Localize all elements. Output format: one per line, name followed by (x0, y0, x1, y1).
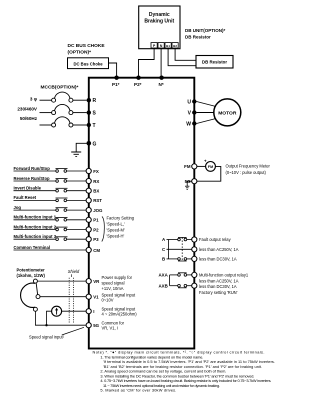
digital input BX: Invert Disable (14, 186, 86, 193)
terminal VR (86, 279, 100, 284)
svg-text:FM: FM (184, 164, 191, 169)
terminal I (86, 309, 94, 314)
svg-text:B1: B1 (166, 44, 170, 48)
DC bus choke box (68, 58, 109, 69)
svg-text:less than AC250V, 1A: less than AC250V, 1A (199, 247, 239, 252)
svg-text:(0~10V : pulse output): (0~10V : pulse output) (226, 170, 267, 175)
digital input P2: Multi-function input 2 (14, 224, 86, 231)
svg-text:Invert Disable: Invert Disable (14, 186, 42, 191)
terminal FX (86, 168, 99, 173)
svg-text:RST: RST (93, 198, 102, 203)
ground symbol (71, 152, 81, 156)
terminal T (87, 123, 96, 129)
svg-text:Jog: Jog (14, 205, 22, 210)
svg-text:G: G (93, 141, 97, 147)
svg-text:FM: FM (208, 165, 213, 169)
svg-text:less than DC30V, 1A: less than DC30V, 1A (199, 257, 237, 262)
svg-text:Power supply for: Power supply for (102, 275, 133, 280)
terminal B1 of braking unit (165, 43, 171, 48)
wire choke to P1 (109, 63, 117, 78)
svg-text:3 φ: 3 φ (30, 97, 38, 102)
digital input P3: Multi-function input 3 (14, 234, 86, 241)
wire N to N node (160, 48, 162, 78)
digital input RX: Reverse Run/Stop (14, 176, 86, 183)
aux relay left bus wire (169, 275, 171, 286)
svg-text:P2*: P2* (134, 82, 142, 87)
digital input JOG: Jog (14, 205, 86, 212)
terminal S (87, 110, 97, 116)
MCCB breaker pole T (40, 117, 87, 127)
svg-text:'Speed-L,': 'Speed-L,' (107, 222, 125, 227)
svg-text:P1*: P1* (112, 82, 120, 87)
wire current source to I (62, 310, 86, 312)
wire B1 to DB resistor (168, 48, 196, 66)
svg-text:V1: V1 (93, 295, 99, 300)
svg-text:P2: P2 (93, 227, 99, 232)
svg-text:DB UNIT(OPTION)*: DB UNIT(OPTION)* (185, 28, 225, 33)
factory setting bracket for P1-P3 (102, 217, 105, 242)
terminal P3 (86, 237, 99, 242)
svg-text:5. Marked as 'CM' for over 30k: 5. Marked as 'CM' for over 30kW drives. (100, 388, 176, 393)
terminal N of braking unit (158, 43, 164, 48)
relay mechanical link (dashed) (181, 237, 183, 261)
wire G to ground (76, 143, 86, 152)
node N (159, 76, 164, 88)
svg-text:AXB: AXB (159, 283, 168, 288)
potentiometer wiper arm (36, 283, 37, 294)
wire U to motor (197, 102, 217, 107)
label DC BUS CHOKE (OPTION) (68, 43, 106, 56)
terminal 30C (192, 247, 197, 252)
potentiometer body arc (21, 283, 36, 307)
svg-text:(1kohm, 1/2W): (1kohm, 1/2W) (17, 273, 46, 278)
potentiometer top contact (33, 279, 37, 283)
terminal 5G (analog common) (86, 323, 100, 328)
svg-text:VR, V1, I: VR, V1, I (102, 326, 118, 331)
terminal RST (86, 198, 102, 203)
svg-text:Braking Unit: Braking Unit (144, 18, 174, 24)
notes block (93, 350, 276, 393)
junction current source to common (45, 324, 47, 326)
svg-text:DC Bus Choke: DC Bus Choke (73, 61, 103, 66)
svg-text:AXA: AXA (159, 273, 169, 278)
svg-text:Fault Reset: Fault Reset (14, 195, 37, 200)
terminal P1 (86, 217, 99, 222)
label fault output relay (199, 237, 239, 261)
wire pot wiper to V1 (40, 296, 86, 298)
svg-text:0~10V: 0~10V (102, 298, 114, 303)
label output frequency meter (226, 164, 271, 175)
svg-text:Output Frequency Meter: Output Frequency Meter (226, 164, 271, 169)
wire B2 to DB resistor (175, 48, 196, 60)
node P2 (134, 76, 142, 88)
terminal RX (86, 178, 99, 183)
shield dotted line left (68, 278, 70, 323)
svg-text:RX: RX (93, 179, 99, 184)
terminal V (188, 110, 197, 116)
terminal AXA (192, 272, 197, 277)
svg-text:Common Terminal: Common Terminal (14, 245, 50, 250)
svg-text:Forward Run/Stop: Forward Run/Stop (14, 166, 51, 171)
wire 5G to shield ground (187, 181, 191, 186)
terminal JOG (86, 208, 103, 213)
terminal G (87, 141, 97, 147)
terminal P of braking unit (151, 43, 157, 48)
svg-text:Dynamic: Dynamic (149, 12, 170, 18)
svg-text:DB Resistor: DB Resistor (202, 60, 227, 65)
terminal P2 (86, 227, 99, 232)
factory setting note (107, 216, 135, 239)
svg-text:A: A (162, 237, 166, 242)
svg-text:S: S (93, 111, 97, 117)
svg-text:+: + (204, 158, 207, 163)
terminal V1 (86, 294, 99, 299)
svg-text:JOG: JOG (93, 208, 103, 213)
svg-text:less than DC30V, 1A: less than DC30V, 1A (199, 284, 237, 289)
svg-text:I: I (93, 309, 94, 314)
svg-text:5G: 5G (93, 323, 99, 328)
label multi-function output relay (199, 272, 249, 295)
potentiometer bottom contact (33, 307, 37, 311)
frequency meter FM (204, 158, 215, 171)
aux relay contact AXB row (159, 283, 192, 288)
terminal AXB (192, 283, 197, 288)
svg-text:Shield: Shield (68, 269, 80, 274)
svg-text:W: W (186, 122, 191, 128)
svg-text:4 ~ 20mA(250ohm): 4 ~ 20mA(250ohm) (102, 312, 138, 317)
svg-text:Multi-function input 1: Multi-function input 1 (14, 215, 57, 220)
terminal R (87, 98, 97, 104)
digital input FX: Forward Run/Stop (14, 166, 86, 173)
label VR power supply (102, 275, 133, 291)
label I speed signal input (102, 307, 138, 317)
svg-text:230/460V: 230/460V (17, 106, 38, 111)
current source (4-20mA) (52, 306, 62, 316)
svg-text:B2: B2 (173, 44, 177, 48)
wire pot bottom to 5G (35, 311, 86, 325)
fault relay C row wire (162, 247, 192, 252)
svg-text:+11V, 10mA: +11V, 10mA (102, 286, 124, 291)
MCCB breaker pole R (40, 92, 87, 102)
digital input CM: Common Terminal (14, 245, 86, 250)
label V1 speed signal input (102, 292, 137, 302)
svg-text:Reverse Run/Stop: Reverse Run/Stop (14, 176, 51, 181)
svg-text:'Speed-H': 'Speed-H' (107, 234, 125, 239)
svg-text:50/60Hz: 50/60Hz (20, 116, 38, 121)
label potentiometer (17, 267, 46, 277)
wire meter to 5G (197, 166, 221, 181)
svg-text:CM: CM (93, 248, 100, 253)
terminal B2 of braking unit (172, 43, 178, 48)
svg-text:P3: P3 (93, 237, 99, 242)
svg-text:BX: BX (93, 189, 99, 194)
label DB UNIT(OPTION) (185, 28, 225, 39)
potentiometer wiper contact (36, 295, 40, 299)
digital input RST: Fault Reset (14, 195, 86, 202)
svg-text:Potentiometer: Potentiometer (17, 267, 46, 272)
terminal FM (184, 164, 197, 169)
wire P to P2 (139, 48, 155, 78)
wire current source to common (47, 311, 52, 325)
svg-text:MCCB(OPTION)*: MCCB(OPTION)* (41, 85, 79, 91)
aux relay contact AXA row (159, 273, 192, 278)
terminal CM (86, 247, 100, 252)
wire pot top to VR (37, 280, 86, 282)
svg-text:'Speed-M': 'Speed-M' (107, 228, 125, 233)
label 3-phase source (17, 97, 38, 122)
svg-text:Multi-function output relay1: Multi-function output relay1 (199, 272, 249, 277)
fault relay contact A row (162, 237, 192, 242)
label 5G common (102, 320, 125, 330)
svg-text:U: U (187, 100, 191, 106)
node P1 (112, 76, 120, 88)
shield ground symbol (185, 186, 189, 189)
motor M1 (214, 99, 241, 126)
svg-text:Multi-function input 3: Multi-function input 3 (14, 234, 57, 239)
terminal W (186, 121, 196, 127)
svg-text:Multi-function input 2: Multi-function input 2 (14, 224, 57, 229)
dynamic braking unit box (139, 6, 180, 49)
svg-text:DB Resistor: DB Resistor (185, 34, 211, 39)
svg-text:Factory setting 'RUN': Factory setting 'RUN' (199, 290, 238, 295)
fault relay contact B row (162, 257, 192, 262)
pointer speed signal input (62, 327, 84, 335)
svg-text:FX: FX (93, 169, 99, 174)
svg-text:Factory Setting: Factory Setting (107, 216, 135, 221)
svg-text:less than AC250V, 1A: less than AC250V, 1A (199, 278, 239, 283)
svg-text:(OPTION)*: (OPTION)* (68, 49, 92, 55)
terminal 30A (192, 237, 197, 242)
svg-text:N*: N* (159, 82, 164, 87)
digital input P1: Multi-function input 1 (14, 215, 86, 222)
terminal U (187, 99, 196, 105)
MCCB breaker pole S (40, 104, 87, 114)
inverter main box (89, 78, 195, 349)
svg-text:Fault output relay: Fault output relay (199, 237, 232, 242)
wire V to motor (197, 112, 214, 114)
svg-text:C: C (162, 247, 166, 252)
svg-text:R: R (93, 98, 97, 104)
svg-text:Speed signal input²: Speed signal input² (29, 334, 65, 339)
fault relay common bus wire (167, 240, 169, 259)
svg-text:B: B (162, 257, 165, 262)
svg-text:T: T (93, 123, 96, 129)
svg-text:P1: P1 (93, 218, 99, 223)
terminal BX (86, 188, 99, 193)
shield dotted line right (73, 278, 75, 323)
wire W to motor (197, 119, 217, 124)
DB resistor box (196, 56, 233, 69)
terminal 5G (FM common) (185, 179, 197, 184)
terminal 30B (192, 256, 197, 261)
svg-text:V: V (188, 111, 192, 117)
svg-text:speed signal: speed signal (102, 281, 125, 286)
wire FM to meter (197, 165, 206, 167)
svg-text:VR: VR (93, 279, 100, 284)
svg-text:DC BUS CHOKE: DC BUS CHOKE (68, 43, 106, 49)
svg-text:MOTOR: MOTOR (218, 110, 237, 116)
